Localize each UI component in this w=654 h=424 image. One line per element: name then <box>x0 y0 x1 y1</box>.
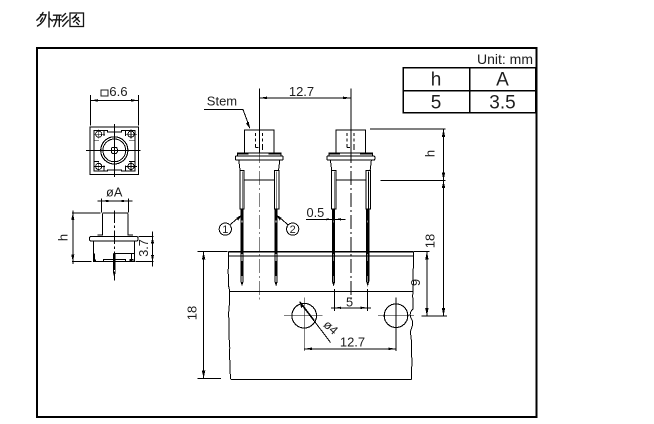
svg-text:3.7: 3.7 <box>137 239 151 257</box>
svg-text:5: 5 <box>431 93 442 114</box>
svg-text:Stem: Stem <box>207 94 237 109</box>
svg-text:A: A <box>496 70 509 91</box>
svg-text:Unit: mm: Unit: mm <box>477 51 533 67</box>
svg-text:12.7: 12.7 <box>289 84 314 99</box>
svg-text:5: 5 <box>346 294 353 309</box>
svg-text:18: 18 <box>423 234 438 248</box>
svg-text:h: h <box>431 70 442 91</box>
svg-text:h: h <box>423 150 438 157</box>
svg-text:9: 9 <box>408 279 423 286</box>
svg-text:18: 18 <box>185 306 200 320</box>
svg-text:6.6: 6.6 <box>109 84 127 99</box>
svg-text:3.5: 3.5 <box>489 93 515 114</box>
svg-text:h: h <box>56 234 71 241</box>
svg-text:1: 1 <box>222 224 228 236</box>
svg-text:12.7: 12.7 <box>340 334 365 349</box>
svg-text:0.5: 0.5 <box>307 205 325 220</box>
svg-text:øA: øA <box>106 185 123 200</box>
svg-text:2: 2 <box>290 224 296 236</box>
